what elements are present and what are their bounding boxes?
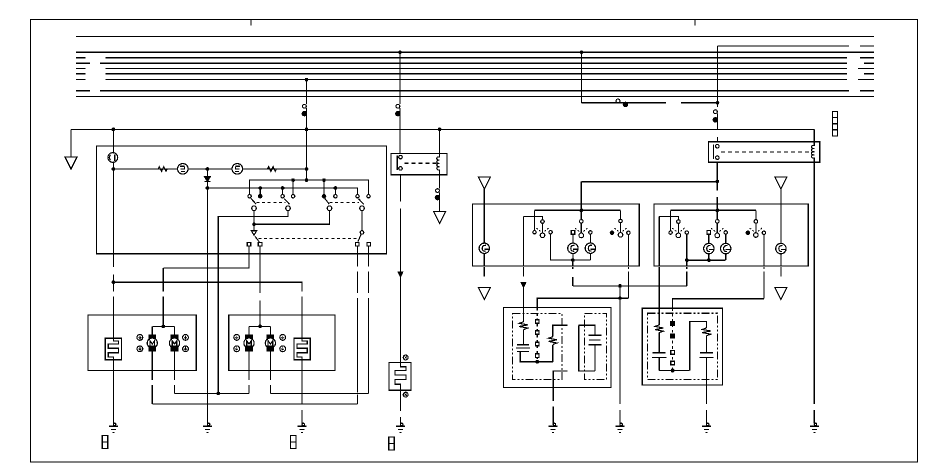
switch sw1 moving contact	[540, 233, 545, 238]
arrow symbol left	[65, 157, 77, 169]
junction diode line2	[206, 186, 210, 190]
ground G1	[109, 423, 118, 432]
junction bracket B	[258, 325, 262, 329]
wire M3 down	[248, 351, 250, 380]
wire M2 down	[174, 351, 176, 380]
wire x207 down	[206, 188, 208, 424]
wire M1 down	[151, 351, 153, 380]
lamp A2	[704, 243, 714, 253]
wire V4 from bus corner	[717, 46, 719, 107]
wire sw2 feed drop	[580, 182, 582, 219]
wire y169	[113, 168, 306, 170]
junction y129.4 relay coil	[438, 128, 442, 132]
switch sw3 left contact	[610, 231, 613, 234]
relay R-A coil feed	[439, 129, 441, 153]
motor bracket B	[249, 325, 270, 327]
wire y393.4 segment 2	[270, 392, 368, 394]
washer motor box A	[88, 315, 196, 370]
wire V2 mid	[400, 209, 402, 273]
junction block square 2	[832, 118, 837, 124]
wire curl to arrow	[439, 193, 441, 212]
tee line1 pin 293	[292, 180, 294, 194]
direction glyph B2b	[280, 346, 286, 352]
transistor Q1	[178, 164, 189, 175]
ground G5	[549, 423, 558, 432]
junction V3 L2	[580, 50, 584, 54]
wire M4 down	[269, 351, 271, 380]
wire x553 to ground	[552, 387, 554, 401]
connector strip2	[672, 308, 674, 370]
wire lampB2 bottom	[725, 254, 727, 260]
ground G7	[702, 423, 711, 432]
moving contact c3	[327, 206, 332, 211]
lower switch arm left	[255, 236, 259, 242]
wire swA right down	[686, 234, 688, 260]
wire swC right down	[763, 235, 765, 267]
splice arrow x523	[521, 283, 525, 288]
bus line L3 left stub	[76, 57, 86, 59]
bus line L5 left stub	[76, 68, 86, 70]
filter1 coil2 riser	[552, 345, 554, 362]
junction x113 y169	[112, 167, 116, 171]
junction lamps1	[571, 258, 575, 262]
pin row2 b	[258, 242, 262, 246]
wire c2 down	[218, 211, 288, 394]
pin row1 d	[291, 195, 294, 198]
switch sw2 left contact	[571, 231, 575, 235]
relay R-A box	[391, 153, 447, 174]
switch sw2 dashes	[575, 228, 587, 231]
bus line A	[718, 45, 850, 47]
ground G2	[203, 423, 212, 432]
switch sw3 arm	[620, 223, 622, 233]
switch swB arm	[716, 223, 718, 233]
junction bus1	[580, 209, 584, 213]
tee line2 pin 335	[334, 188, 336, 194]
wire y404.1	[152, 403, 357, 405]
junction block square 3	[832, 124, 837, 130]
filter1 right left side	[579, 325, 595, 371]
wire y102.8 left segment	[582, 102, 667, 104]
wire pin357 down	[356, 246, 358, 267]
junction filter2	[671, 369, 675, 373]
filter1 shield right	[585, 314, 607, 380]
wire V1 drop from L7	[306, 80, 308, 104]
junction lamps2 a	[685, 258, 689, 262]
wire lampB1 bottom	[589, 253, 591, 260]
connector strip x537	[536, 308, 538, 362]
relay R-B pin top	[716, 144, 720, 148]
wire y285.9 link	[573, 285, 687, 287]
wire C2 to bottom	[594, 345, 596, 371]
bus line L3	[106, 57, 848, 59]
capacitor C2 bars	[588, 335, 601, 345]
wire coil to ground run	[813, 162, 815, 404]
wire y298.7	[673, 299, 764, 309]
motor M4	[267, 335, 273, 340]
wire x523 below box segment	[523, 267, 525, 277]
wire y282.2	[113, 282, 302, 291]
switch swC moving contact	[754, 233, 759, 238]
wire x764 below box	[763, 272, 765, 299]
junction y129.4 V1	[305, 128, 309, 132]
wire coil2 to cap2	[706, 336, 708, 353]
noise filter 1 box	[503, 308, 611, 388]
wire lamps2 down	[686, 260, 688, 266]
switch swB top pin	[716, 220, 720, 224]
tee line2 pin 282	[282, 188, 284, 194]
wire V4 lower	[717, 114, 719, 131]
wire V4 relay out	[716, 162, 718, 190]
relay R-B box	[709, 142, 820, 163]
capacitor C3 bars	[652, 353, 666, 358]
wire pin368 down	[368, 246, 370, 267]
pin row2 c	[355, 242, 359, 246]
bus line L4 right stub	[864, 62, 874, 64]
pin row1 a	[248, 195, 251, 198]
ground G3	[298, 423, 307, 432]
junction block square 1	[832, 112, 837, 118]
switch feed line2	[207, 188, 357, 194]
switch swC arm	[755, 223, 757, 233]
wire pin260 down upper	[259, 246, 261, 293]
ground G4	[396, 423, 405, 432]
wire x764 stub	[763, 267, 765, 269]
bus line L6	[106, 73, 848, 75]
lower switch pivot right	[360, 231, 364, 235]
resistor R2	[268, 167, 277, 172]
switch sw2 arm	[580, 223, 582, 233]
wire x814 lower	[813, 410, 815, 424]
wire lamp0 feed	[483, 189, 485, 243]
filter2 bridge	[690, 321, 707, 370]
wire V3 drop from L2	[581, 52, 583, 103]
transistor Q2	[232, 164, 243, 175]
junction bracket A	[162, 325, 166, 329]
direction glyph B1a	[234, 335, 240, 341]
wire coil1 to cap	[658, 333, 660, 353]
junction line1 V1	[305, 178, 309, 182]
wire lamp0 below box	[483, 267, 485, 277]
junction V4 y102.8	[716, 101, 720, 105]
switch sw1 left contact	[533, 231, 536, 234]
wire V2 lower	[399, 108, 401, 153]
filter1 right loop	[579, 325, 595, 335]
bus line A right stub	[860, 45, 874, 47]
switch swB moving contact	[715, 233, 720, 238]
switch sw3 moving contact	[618, 233, 623, 238]
wire y216.4 swA feed	[659, 216, 678, 219]
arrow above lamp0	[478, 177, 490, 189]
wire sw1 right out	[551, 234, 573, 260]
wire x620 lower	[619, 410, 621, 424]
wire to left arrow	[70, 129, 72, 157]
wire y129.4 feed	[71, 128, 814, 130]
wire grid B to ground	[301, 410, 303, 424]
pin row1 b	[259, 195, 262, 198]
switch sw1 dashes	[536, 228, 548, 231]
arrow symbol mid	[434, 212, 446, 224]
direction glyph B2a	[280, 335, 286, 341]
pin row1 g	[356, 195, 359, 198]
connector curl on wire y102.8	[616, 99, 620, 103]
wire lampC out	[780, 254, 782, 266]
switch sw1 right contact	[549, 231, 552, 234]
wire c1 down	[253, 211, 255, 225]
switch swA right contact	[685, 231, 688, 234]
strip2 pin 4	[671, 361, 675, 365]
wire pin260 down lower	[259, 300, 261, 326]
filter2 coil1	[655, 325, 663, 333]
switch swA moving contact	[676, 233, 681, 238]
combination lamp box 2	[654, 204, 808, 266]
bus line L6 left stub	[76, 73, 86, 75]
wire V4 into lamp box	[716, 197, 718, 220]
wire y260.2 lamps2 common	[687, 259, 726, 261]
switch swA top pin	[677, 220, 681, 224]
junction block square 4	[832, 130, 837, 136]
relay R-B contact bar	[713, 144, 715, 158]
bus line L1	[76, 36, 874, 38]
wire x113 below breaker	[112, 162, 114, 253]
lower switch arm right	[358, 234, 361, 241]
wire x628 below box	[627, 272, 629, 299]
lamp L0	[479, 243, 489, 253]
switch swC left contact	[746, 231, 749, 234]
resistor R1	[158, 167, 167, 172]
bracket B stubs	[248, 326, 250, 335]
wire y393.4 segment 1	[175, 392, 250, 394]
grid element B	[294, 338, 310, 360]
arrow above lampC	[775, 177, 787, 189]
motor M1	[149, 335, 155, 340]
connector code box 1	[102, 436, 108, 449]
switch sw1 top pin	[541, 220, 545, 224]
wire x628 stub	[627, 267, 629, 269]
connector curl on V4	[714, 110, 718, 114]
wire cap to bottom	[520, 351, 553, 361]
wire y102.8 right segment	[681, 102, 718, 104]
bus line L7	[106, 79, 848, 81]
junction x254	[252, 223, 256, 227]
wire sw2 right to lampB	[589, 234, 591, 243]
circuit breaker circle	[108, 153, 118, 163]
frame tick 1	[250, 20, 252, 26]
wire x572 below box	[572, 267, 574, 269]
wire x686 stub	[686, 267, 688, 269]
tee line2 pin 260	[259, 188, 261, 194]
wire lampA1 bottom	[572, 254, 574, 261]
capacitor C4 bars	[699, 353, 713, 358]
bus line L8 right stub	[860, 90, 874, 92]
wire V4 below crossing	[717, 137, 719, 142]
bracket A stubs	[151, 326, 153, 335]
lamp B2	[721, 243, 731, 253]
strip2 pin 3	[671, 351, 675, 355]
relay R-A contact bar	[396, 155, 398, 170]
switch swC top pin	[754, 220, 758, 224]
switch swA arm	[677, 223, 679, 233]
junction y129.4 x113	[112, 128, 116, 132]
wire y370.5	[659, 370, 690, 372]
junction x620 y298.2	[618, 297, 621, 300]
lamp B1	[585, 243, 595, 253]
switch arm 2	[284, 199, 289, 204]
switch sw2 top pin	[580, 220, 584, 224]
switch swC dashes	[750, 228, 762, 231]
wire c4 down	[361, 211, 363, 231]
pin row1 c	[281, 195, 284, 198]
junction V1 L7	[305, 78, 309, 82]
moving contact c4	[360, 206, 365, 211]
direction glyph A2a	[183, 335, 189, 341]
junction lamps2 b	[707, 258, 711, 262]
bus1 left corner to contact	[534, 210, 536, 230]
wire x686 below box	[686, 272, 688, 286]
frame tick 2	[694, 20, 696, 26]
splice arrow V2	[398, 272, 402, 277]
junction y393.4	[217, 392, 221, 396]
switch arm 4	[359, 199, 364, 205]
junction V4 y181.4	[716, 180, 720, 184]
noise filter 2 box	[642, 308, 722, 385]
wire y216.4 sw1 feed	[524, 216, 543, 219]
switch swC right contact	[762, 231, 765, 234]
wire pack to ground	[400, 390, 402, 411]
ground G8	[810, 423, 819, 432]
bus line L2	[76, 51, 874, 53]
bus2 left corner to contact	[670, 210, 672, 231]
wire swB right to lampB2	[725, 234, 727, 243]
connector code box 3	[389, 437, 395, 450]
junction x113 y282	[112, 280, 116, 284]
bus2 y210.3	[671, 209, 756, 211]
junction y285.9	[618, 284, 622, 288]
bus2 right corner to swC pin	[755, 210, 757, 219]
wire pin249 down	[163, 246, 249, 268]
filter2 shield	[648, 313, 718, 379]
filter1 arm bottom	[553, 371, 567, 387]
bus line L8 left stub	[76, 90, 90, 92]
wire x523 to filter	[523, 287, 525, 321]
ground G6	[616, 423, 625, 432]
lamp C	[776, 243, 786, 253]
bus1 y210.3	[535, 209, 621, 211]
filter1 coil2	[549, 337, 557, 345]
strip pin 1	[536, 320, 540, 324]
strip2 pin 1	[671, 322, 675, 326]
wire lamp0 out	[483, 254, 485, 267]
switch swB right contact	[724, 231, 727, 234]
switch swB dashes	[711, 228, 723, 231]
bus line L8	[100, 90, 849, 92]
direction glyph A1b	[137, 346, 143, 352]
bus line L4	[100, 62, 847, 64]
tee line1 pin 324	[323, 180, 325, 194]
wire lamps1 down	[572, 260, 574, 266]
bus line L5 right stub	[858, 68, 874, 70]
lower switch feed arrow	[253, 224, 255, 231]
motor bracket A	[152, 325, 174, 327]
wire x113 upper	[112, 129, 114, 152]
switch sw1 arm	[542, 223, 544, 233]
switch feed line1	[250, 180, 369, 194]
wire lampC below box	[780, 267, 782, 277]
junction filter1	[535, 360, 539, 364]
wire x302 to grid	[301, 297, 303, 339]
bus line L4 left stub	[76, 62, 90, 64]
junction y169 x207	[206, 167, 210, 171]
pin glyph bottom	[403, 392, 408, 397]
moving contact c1	[252, 206, 257, 211]
wire y298.2	[537, 298, 628, 307]
filter1 shield left	[513, 314, 562, 380]
direction glyph B1b	[234, 346, 240, 352]
pin glyph top	[403, 355, 408, 360]
bus line L6 right stub	[864, 73, 874, 75]
wire lampC feed	[780, 189, 782, 244]
filter1 coil	[519, 322, 527, 330]
pin row1 f	[334, 195, 337, 198]
switch arm 1	[251, 198, 256, 204]
resistor pack element	[395, 363, 406, 391]
junction V2 L2	[398, 50, 402, 54]
wire coil to curl	[439, 175, 441, 189]
wire x659 down	[658, 216, 660, 266]
dashed link row2	[259, 238, 360, 240]
relay R-A dashed link	[405, 162, 437, 164]
wire C4 out	[706, 357, 708, 404]
dashed link row1 left	[257, 202, 286, 204]
pin row1 h	[367, 195, 370, 198]
strip2 pin 2	[671, 334, 675, 338]
switch swB left contact	[707, 231, 711, 235]
junction bus2	[716, 209, 720, 213]
relay R-B coil	[811, 142, 814, 162]
connector curl on V2	[396, 104, 400, 108]
wire x620 to ground	[619, 286, 621, 404]
wire sw2 left to lampA	[572, 234, 574, 243]
wire V1 inside box	[306, 129, 308, 180]
wire y224.3	[254, 211, 329, 225]
connector curl on V1	[303, 104, 307, 108]
lamp A1	[568, 243, 578, 253]
grid element A	[105, 338, 121, 360]
wire x163 upper	[162, 268, 164, 292]
wire grid A to box bottom	[112, 360, 114, 424]
strip pin 3	[536, 342, 540, 346]
relay R-A coil	[437, 153, 440, 174]
switch swA left contact	[669, 231, 672, 234]
bus line L3 right stub	[860, 57, 874, 59]
resistor pack box	[389, 363, 411, 391]
capacitor C1 bars	[516, 345, 530, 352]
pin row2 d	[367, 242, 371, 246]
switch sw3 dashes	[614, 228, 626, 231]
wire x163 lower	[162, 297, 164, 327]
wire V2 to resistor pack	[400, 277, 402, 363]
wire V2 below relay	[400, 175, 402, 202]
wire V2 drop from L2	[399, 52, 401, 104]
wire swB left to lampA2	[708, 234, 710, 243]
wire y260.1 lamps common	[573, 259, 591, 261]
dashed link row1 right	[330, 202, 360, 204]
motor M2	[171, 335, 177, 340]
bus line L5	[106, 68, 848, 70]
relay R-B dashed link	[721, 151, 810, 153]
wire V1 lower	[306, 108, 308, 129]
bus line L7 left stub	[76, 79, 86, 81]
